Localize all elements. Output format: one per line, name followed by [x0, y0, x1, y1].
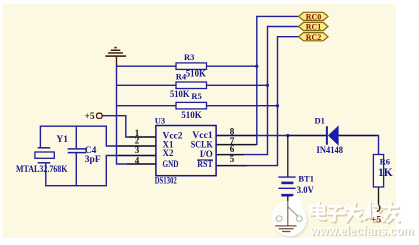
svg-text:IN4148: IN4148 [317, 145, 344, 155]
svg-text:DS1302: DS1302 [155, 176, 177, 186]
svg-text:R6: R6 [380, 156, 390, 166]
svg-text:3pF: 3pF [85, 155, 101, 165]
svg-text:U3: U3 [155, 115, 165, 125]
svg-text:D1: D1 [315, 115, 325, 125]
svg-text:510K: 510K [181, 111, 202, 121]
svg-text:X2: X2 [163, 148, 174, 158]
svg-text:+5: +5 [371, 215, 381, 225]
svg-text:www.elecfans.com: www.elecfans.com [310, 224, 414, 238]
svg-text:GND: GND [163, 159, 179, 169]
svg-text:2: 2 [135, 136, 140, 146]
svg-text:3: 3 [135, 145, 140, 155]
svg-text:BT1: BT1 [298, 173, 314, 183]
svg-text:4: 4 [135, 156, 140, 166]
svg-text:RC1: RC1 [306, 23, 322, 32]
svg-text:+5: +5 [85, 112, 95, 122]
svg-text:5: 5 [230, 154, 235, 164]
svg-text:510K: 510K [170, 90, 190, 100]
svg-text:R5: R5 [191, 91, 201, 101]
svg-text:RC2: RC2 [306, 33, 322, 42]
svg-text:MTAL32.768K: MTAL32.768K [16, 164, 68, 174]
svg-text:RC0: RC0 [306, 13, 322, 22]
svg-text:3.0V: 3.0V [297, 185, 314, 195]
svg-text:R4: R4 [176, 72, 187, 82]
svg-text:1K: 1K [378, 167, 393, 179]
svg-text:R3: R3 [184, 52, 194, 62]
svg-text:510K: 510K [186, 70, 207, 80]
svg-text:I/O: I/O [200, 149, 213, 159]
svg-text:6: 6 [230, 144, 235, 154]
svg-text:Y1: Y1 [56, 135, 68, 145]
